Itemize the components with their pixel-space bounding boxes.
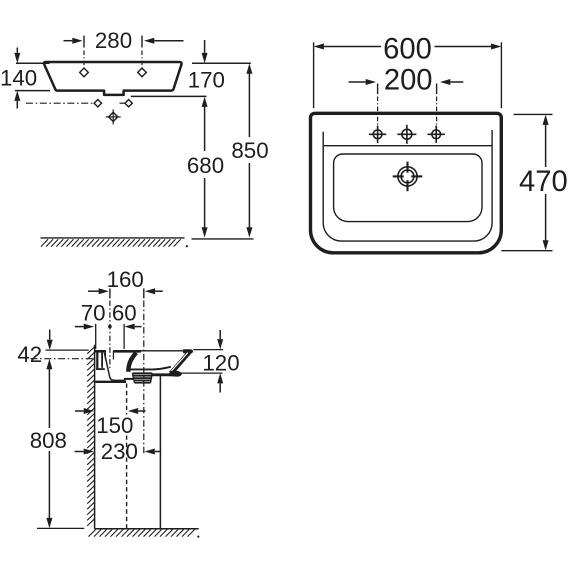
- svg-text:680: 680: [187, 153, 224, 178]
- plan ledge line: [323, 145, 492, 147]
- dim 850: [231, 63, 268, 237]
- dim 140: [0, 48, 50, 109]
- drain mark diamond (front view): [106, 109, 121, 124]
- svg-text:200: 200: [384, 64, 433, 96]
- basin section back wall curve: [128, 353, 136, 372]
- svg-text:70: 70: [81, 301, 106, 326]
- svg-text:170: 170: [188, 67, 225, 92]
- siphon dashed line: [126, 384, 128, 529]
- basin section wall bracket: [96, 352, 105, 370]
- basin section underside band right of boss: [152, 373, 171, 376]
- basin section drain boss: [132, 373, 152, 382]
- dim 470: [501, 114, 567, 250]
- faucet hole plan right: [428, 126, 445, 143]
- faucet centerline left (front view): [83, 36, 85, 68]
- svg-text:280: 280: [95, 28, 132, 53]
- svg-text:42: 42: [17, 342, 42, 367]
- svg-text:230: 230: [101, 439, 138, 464]
- dim 680: [187, 97, 224, 238]
- plan bowl outline: [334, 154, 482, 222]
- pedestal front line: [159, 374, 161, 529]
- svg-text:120: 120: [202, 350, 239, 375]
- fixing axis dash-dot below basin: [26, 102, 125, 104]
- dim 808: [30, 359, 85, 529]
- plan inner rim: [323, 130, 492, 241]
- faucet hole diamond left (front view): [80, 68, 89, 77]
- fixing hole diamond left: [94, 100, 101, 107]
- svg-text:470: 470: [519, 166, 568, 198]
- fixing hole diamond right: [125, 100, 132, 107]
- dim 230: [75, 439, 162, 464]
- basin section rim deck: [95, 349, 184, 352]
- ground line under arrows (front view): [192, 238, 254, 240]
- dim 600: [314, 33, 502, 108]
- dim 150: [75, 408, 146, 438]
- svg-text:808: 808: [30, 428, 67, 453]
- dim 200: [349, 64, 464, 96]
- svg-text:600: 600: [383, 33, 432, 65]
- wall line: [94, 345, 96, 529]
- basin section bowl bottom inner: [129, 367, 171, 370]
- drain symbol plan: [393, 162, 423, 192]
- basin section front wall: [170, 352, 189, 373]
- basin section pedestal foot: [170, 371, 182, 376]
- basin front outline: [44, 62, 182, 95]
- svg-text:60: 60: [112, 301, 137, 326]
- hatch end dot (side ground): [197, 536, 199, 538]
- dim 42: [17, 330, 94, 368]
- ground line (side view): [95, 528, 199, 530]
- basin section hollow back outline: [95, 353, 126, 382]
- dim 120: [176, 330, 240, 393]
- basin section front rim tip: [184, 350, 193, 354]
- faucet centerline right (front view): [141, 36, 143, 68]
- svg-text:160: 160: [107, 267, 144, 292]
- faucet centerline plan left: [377, 84, 379, 129]
- plan view outer outline: [311, 113, 502, 253]
- basin section faucet hole walls: [105, 351, 113, 360]
- basin section underside left of boss: [124, 378, 133, 380]
- hatch end dot (front ground): [186, 245, 188, 247]
- faucet hole plan middle: [397, 125, 416, 144]
- svg-text:150: 150: [96, 413, 133, 438]
- wall hatching: [87, 347, 94, 526]
- dim 170: [131, 40, 251, 96]
- dim 280: [64, 28, 184, 53]
- faucet hole diamond right (front view): [138, 68, 147, 77]
- dim 60: [96, 301, 142, 349]
- dim 70: [75, 301, 112, 330]
- faucet centerline (side view): [109, 289, 111, 369]
- dim 160: [88, 267, 163, 294]
- faucet centerline plan right: [436, 84, 438, 129]
- ground hatching (side view): [89, 529, 195, 536]
- ground line hatched (front view): [41, 238, 185, 247]
- svg-text:140: 140: [0, 65, 37, 90]
- drain centerline (side view): [143, 289, 145, 455]
- faucet hole plan left: [369, 126, 386, 143]
- svg-text:850: 850: [231, 138, 268, 163]
